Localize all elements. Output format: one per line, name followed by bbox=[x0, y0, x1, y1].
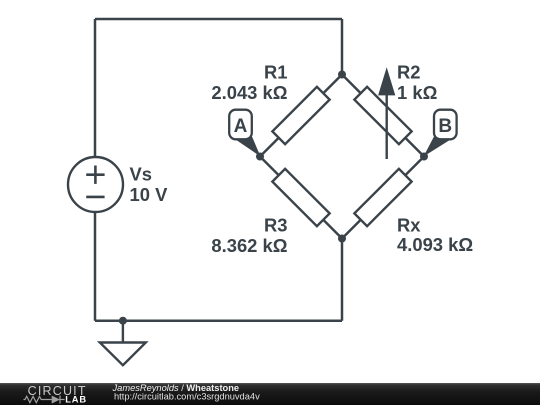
R2 wiper arrow bbox=[378, 67, 395, 159]
svg-text:B: B bbox=[438, 116, 452, 137]
svg-text:4.093 kΩ: 4.093 kΩ bbox=[397, 234, 473, 255]
label Vs value bbox=[130, 164, 169, 205]
junction dot ground bbox=[119, 317, 127, 325]
label R2 bbox=[397, 62, 437, 104]
svg-text:http://circuitlab.com/c3srgdnu: http://circuitlab.com/c3srgdnuvda4v bbox=[114, 392, 260, 402]
svg-text:1 kΩ: 1 kΩ bbox=[397, 82, 437, 103]
wire bridge edge R1 bbox=[260, 75, 342, 157]
wire left vertical lower bbox=[94, 212, 97, 321]
svg-text:Vs: Vs bbox=[130, 164, 153, 185]
svg-text:A: A bbox=[234, 116, 248, 137]
resistor Rx bbox=[354, 169, 411, 226]
wire top horizontal bbox=[95, 18, 342, 21]
ground bbox=[100, 321, 146, 366]
wire bridge edge Rx bbox=[342, 157, 424, 239]
resistor R3 bbox=[272, 169, 329, 226]
label R3 bbox=[211, 215, 287, 257]
svg-text:R1: R1 bbox=[264, 62, 288, 83]
voltage source Vs bbox=[68, 157, 123, 212]
svg-text:R2: R2 bbox=[397, 62, 421, 83]
node A flag bbox=[229, 110, 260, 157]
svg-text:Rx: Rx bbox=[397, 215, 421, 236]
resistor R1 bbox=[272, 87, 329, 144]
wire bridge edge R3 bbox=[260, 157, 342, 239]
wire bridge edge R2 bbox=[342, 75, 424, 157]
wire bottom horizontal bbox=[95, 319, 342, 322]
svg-text:R3: R3 bbox=[264, 215, 288, 236]
footer logo resistor-diode glyph bbox=[24, 396, 65, 404]
svg-text:LAB: LAB bbox=[65, 395, 87, 405]
svg-text:2.043 kΩ: 2.043 kΩ bbox=[211, 82, 287, 103]
junction dot node A bbox=[256, 153, 264, 161]
wire left vertical upper bbox=[94, 19, 97, 157]
svg-text:8.362 kΩ: 8.362 kΩ bbox=[211, 235, 287, 256]
label Rx bbox=[397, 215, 473, 256]
svg-text:10 V: 10 V bbox=[130, 184, 169, 205]
footer bar bbox=[0, 383, 540, 405]
junction dot node B bbox=[420, 153, 428, 161]
junction dot bottom node bbox=[338, 235, 346, 243]
junction dot top node bbox=[338, 71, 346, 79]
wire right riser upper bbox=[341, 19, 344, 75]
node B flag bbox=[424, 110, 457, 157]
wire right riser lower bbox=[341, 239, 344, 321]
resistor R2 (variable) bbox=[354, 87, 411, 144]
label R1 bbox=[211, 62, 287, 104]
